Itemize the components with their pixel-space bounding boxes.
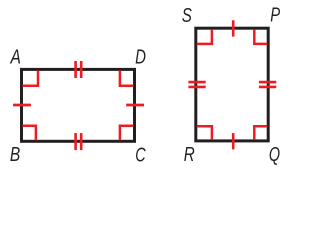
single tick on side DC	[126, 104, 144, 107]
right-angle mark at S	[197, 29, 212, 44]
right-angle mark at P	[254, 29, 267, 44]
single tick on side SP	[232, 20, 235, 36]
double tick on side SR	[188, 82, 205, 87]
double tick on side AD	[76, 61, 82, 78]
right-angle mark at D	[120, 70, 134, 85]
right-angle mark at Q	[254, 126, 267, 140]
single tick on side RQ	[232, 133, 235, 149]
rectangle ABCD	[22, 69, 135, 141]
single tick on side AB	[13, 104, 31, 107]
svg-text:D: D	[135, 46, 146, 69]
double tick on side BC	[76, 133, 82, 150]
svg-text:P: P	[270, 4, 280, 27]
svg-text:R: R	[184, 143, 195, 166]
right-angle mark at B	[23, 126, 36, 141]
right-angle mark at C	[120, 126, 134, 141]
svg-text:A: A	[10, 46, 21, 68]
svg-text:S: S	[182, 4, 192, 27]
svg-text:B: B	[10, 143, 20, 165]
right-angle mark at A	[23, 70, 39, 85]
double tick on side PQ	[259, 82, 276, 87]
svg-text:Q: Q	[269, 143, 280, 166]
svg-text:C: C	[135, 143, 146, 166]
rectangle SPQR	[196, 28, 268, 141]
right-angle mark at R	[197, 126, 212, 140]
